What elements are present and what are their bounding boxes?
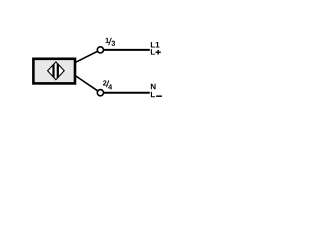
net label L+ [151,49,161,55]
terminal circle 1/3 [97,47,103,53]
wire from sensor to terminal 1/3 [76,50,101,62]
proximity sensor diamond symbol [48,61,65,81]
net label N [151,84,156,90]
wire terminal 1/3 to L1/L+ [104,49,150,51]
wire from sensor to terminal 2/4 [76,76,101,93]
pin label 1/3 [106,38,116,46]
net label L1 [151,42,160,48]
terminal circle 2/4 [97,90,103,96]
wire terminal 2/4 to N/L- [104,92,150,94]
proximity sensor body [33,59,75,84]
net label L- [151,92,162,98]
pin label 2/4 [103,80,112,89]
